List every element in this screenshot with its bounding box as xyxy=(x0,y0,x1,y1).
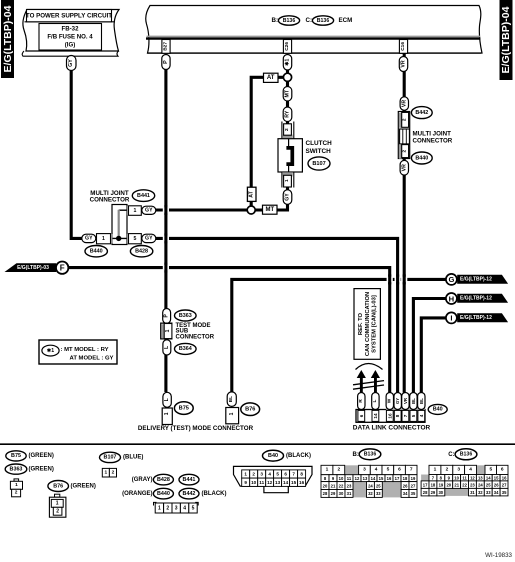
svg-text:31: 31 xyxy=(347,491,352,496)
svg-text:1: 1 xyxy=(158,505,161,511)
svg-text:28: 28 xyxy=(323,491,328,496)
svg-text:VR: VR xyxy=(401,100,407,107)
wire color label P xyxy=(162,55,170,70)
svg-text:VR: VR xyxy=(403,397,408,404)
wire crossing breaks (no connection) xyxy=(163,205,408,284)
svg-text:22: 22 xyxy=(339,483,344,488)
svg-text:CONNECTOR: CONNECTOR xyxy=(413,137,453,144)
svg-text:4: 4 xyxy=(183,505,186,511)
svg-text:: MT MODEL : RY: : MT MODEL : RY xyxy=(61,347,109,353)
svg-text:6: 6 xyxy=(284,472,287,477)
connector oval B440 (right) xyxy=(411,152,432,164)
DLC pin 16 W xyxy=(386,393,393,422)
DLC pin 7 VR xyxy=(402,393,409,422)
test mode sub connector socket xyxy=(161,323,215,341)
legend B107 (BLUE) xyxy=(100,452,144,462)
svg-text:B76: B76 xyxy=(245,407,255,413)
svg-text:MT: MT xyxy=(265,207,274,213)
svg-text:1: 1 xyxy=(56,501,59,507)
svg-text:BL: BL xyxy=(411,398,416,404)
svg-text:8: 8 xyxy=(395,414,400,417)
delivery connector B75 xyxy=(162,392,172,424)
svg-text:B40: B40 xyxy=(433,407,443,413)
legend (ORANGE) B440 B442 (BLACK) xyxy=(122,488,226,499)
svg-text:H: H xyxy=(449,294,454,303)
svg-text:2: 2 xyxy=(112,469,115,475)
svg-text:10: 10 xyxy=(251,480,257,485)
wire color label GY (clutch out) xyxy=(283,190,292,205)
svg-text:GY: GY xyxy=(85,236,93,242)
svg-text:B40: B40 xyxy=(268,453,278,459)
ECM pin C16 xyxy=(399,40,407,54)
svg-text:SWITCH: SWITCH xyxy=(306,148,332,155)
svg-text:11: 11 xyxy=(462,475,467,480)
svg-text:B:: B: xyxy=(272,17,279,24)
off-page arrow E/G(LTBP)-12 (G) xyxy=(457,275,508,284)
svg-text:REF. TO: REF. TO xyxy=(358,312,364,335)
svg-text:18: 18 xyxy=(403,476,408,481)
svg-text:CONNECTOR: CONNECTOR xyxy=(90,196,130,203)
note box *1 MT/AT wire colors xyxy=(39,340,117,364)
svg-text:23: 23 xyxy=(470,482,475,487)
svg-text:BL: BL xyxy=(419,398,424,404)
svg-text:B136: B136 xyxy=(364,452,377,458)
svg-text:1: 1 xyxy=(229,412,235,415)
svg-text:C:: C: xyxy=(306,17,313,24)
ECM pin C26 xyxy=(283,40,291,54)
svg-text:2: 2 xyxy=(337,467,340,473)
DLC pin 8 GY xyxy=(394,393,401,422)
svg-text:7: 7 xyxy=(410,467,413,473)
connector oval B442 xyxy=(411,107,432,119)
svg-text:E/G(LTBP)-04: E/G(LTBP)-04 xyxy=(500,6,512,73)
page tab E/G(LTBP)-04 right xyxy=(500,0,513,80)
svg-text:1: 1 xyxy=(326,467,329,473)
svg-text:1: 1 xyxy=(102,236,105,242)
svg-text:17: 17 xyxy=(423,482,428,487)
svg-text:1: 1 xyxy=(434,467,437,473)
svg-text:10: 10 xyxy=(454,475,459,480)
svg-text:22: 22 xyxy=(462,482,467,487)
node G xyxy=(446,274,457,285)
connector oval B428 xyxy=(130,246,152,257)
svg-text:12: 12 xyxy=(355,476,360,481)
svg-text:2: 2 xyxy=(252,472,255,477)
svg-text:B76: B76 xyxy=(53,483,63,489)
svg-text:AT: AT xyxy=(249,190,255,197)
svg-text:32: 32 xyxy=(368,491,373,496)
test mode sub connector B363/B364 xyxy=(163,309,171,324)
svg-text:B364: B364 xyxy=(179,346,192,352)
wire color label VR (below B440) xyxy=(400,160,408,175)
clutch switch B107 pin 2 xyxy=(282,122,294,139)
svg-text:19: 19 xyxy=(411,476,416,481)
svg-text:FB-32: FB-32 xyxy=(62,26,80,33)
svg-text:DELIVERY (TEST) MODE CONNECTOR: DELIVERY (TEST) MODE CONNECTOR xyxy=(138,425,254,432)
svg-text:(GREEN): (GREEN) xyxy=(29,466,54,472)
svg-text:GY: GY xyxy=(145,236,153,242)
svg-text:(GREEN): (GREEN) xyxy=(29,453,54,459)
svg-text:RY: RY xyxy=(285,110,291,118)
wire row through multi joint connector (left) xyxy=(96,237,156,239)
svg-text:GY: GY xyxy=(395,398,400,404)
svg-text:11: 11 xyxy=(259,480,264,485)
svg-text:(IG): (IG) xyxy=(65,42,76,49)
svg-text:E/G(LTBP)-04: E/G(LTBP)-04 xyxy=(2,5,14,72)
svg-text:25: 25 xyxy=(486,482,491,487)
svg-text:5: 5 xyxy=(276,472,279,477)
svg-text:2: 2 xyxy=(166,505,169,511)
svg-text:VR: VR xyxy=(401,164,407,171)
svg-text:6: 6 xyxy=(398,467,401,473)
svg-text:B75: B75 xyxy=(11,453,21,459)
twisted pair to CAN (pins 6/14) xyxy=(353,364,384,394)
B441 pin 1 (upper) xyxy=(127,206,141,216)
wire color label GY (B441 out) xyxy=(142,206,156,214)
svg-text:13: 13 xyxy=(478,475,483,480)
wire GY from B428 pin5 to data link connector pin 8 xyxy=(156,238,398,392)
svg-text:VR: VR xyxy=(401,60,407,67)
legend B40 (BLACK) xyxy=(263,450,312,461)
svg-text:6: 6 xyxy=(359,414,364,417)
svg-text:4: 4 xyxy=(419,414,424,417)
connector oval B40 xyxy=(428,404,447,414)
svg-text:B442: B442 xyxy=(415,110,428,116)
svg-text:25: 25 xyxy=(376,483,381,488)
connector oval B363 xyxy=(175,310,197,321)
svg-text:B440: B440 xyxy=(415,155,428,161)
svg-text:3: 3 xyxy=(260,472,263,477)
wire *1 from C26 to clutch switch and junction xyxy=(156,70,288,210)
svg-text:B136: B136 xyxy=(460,452,473,458)
connector oval B364 xyxy=(175,343,197,354)
svg-text:B:: B: xyxy=(353,452,359,458)
svg-text:5: 5 xyxy=(192,505,195,511)
wire VR from C16 to data link connector pin 7 xyxy=(403,53,406,393)
ECM pin B27 xyxy=(162,40,170,54)
legend separator xyxy=(0,443,515,445)
svg-text:20: 20 xyxy=(323,483,328,488)
svg-text:1: 1 xyxy=(165,329,171,332)
svg-text:B27: B27 xyxy=(163,42,169,51)
svg-text:17: 17 xyxy=(395,476,400,481)
off-page arrow E/G(LTBP)-12 (H) xyxy=(457,294,508,303)
svg-text:(ORANGE): (ORANGE) xyxy=(122,491,152,497)
wire color label GY (B440 in) xyxy=(82,234,96,242)
svg-text:E/G(LTBP)-12: E/G(LTBP)-12 xyxy=(460,315,492,321)
connector oval B75 xyxy=(174,402,193,415)
svg-text:1: 1 xyxy=(164,412,170,415)
svg-text:7: 7 xyxy=(292,472,295,477)
label AT (horizontal box) xyxy=(264,73,279,82)
svg-text:P: P xyxy=(163,60,169,64)
svg-text:27: 27 xyxy=(502,482,507,487)
svg-text:C:: C: xyxy=(448,452,454,458)
legend connector icon B363 xyxy=(10,479,22,497)
svg-text:26: 26 xyxy=(403,483,408,488)
legend B363 (GREEN) xyxy=(5,464,54,474)
svg-text:12: 12 xyxy=(267,480,273,485)
svg-text:30: 30 xyxy=(339,491,344,496)
svg-text:5: 5 xyxy=(133,236,136,242)
svg-text:6: 6 xyxy=(501,467,504,473)
svg-text:B136: B136 xyxy=(283,18,296,24)
svg-text:20: 20 xyxy=(446,482,451,487)
svg-text:B107: B107 xyxy=(104,455,117,461)
node H xyxy=(446,293,457,304)
svg-text:B107: B107 xyxy=(312,161,325,167)
legend connector icon B76 xyxy=(49,494,66,517)
connector oval B440 (left) xyxy=(85,246,107,257)
data link connector B40 xyxy=(356,394,425,423)
svg-text:E/G(LTBP)-12: E/G(LTBP)-12 xyxy=(460,295,492,301)
svg-text:B363: B363 xyxy=(10,466,23,472)
svg-text:(GREEN): (GREEN) xyxy=(71,483,96,489)
svg-text:16: 16 xyxy=(387,413,392,419)
svg-text:ECM: ECM xyxy=(339,17,353,24)
svg-text:1: 1 xyxy=(244,472,247,477)
delivery connector B76 xyxy=(226,392,239,424)
svg-text:G: G xyxy=(448,275,454,284)
connector oval B76 xyxy=(241,403,260,416)
svg-text:16: 16 xyxy=(299,480,305,485)
svg-text:23: 23 xyxy=(347,483,352,488)
svg-text:2: 2 xyxy=(402,118,408,121)
svg-text:MT: MT xyxy=(285,89,291,97)
svg-text:2: 2 xyxy=(446,467,449,473)
ECM label B:(B136) C:(B136) ECM xyxy=(272,16,353,25)
wire color label RY xyxy=(283,107,292,122)
svg-text:GY: GY xyxy=(145,208,153,214)
svg-text:L: L xyxy=(372,399,378,402)
svg-text:2: 2 xyxy=(56,508,59,514)
svg-text:8: 8 xyxy=(300,472,303,477)
off-page arrow E/G(LTBP)-12 (I) xyxy=(457,313,508,322)
B440 pin 1 (lower left) xyxy=(97,234,113,244)
legend C:(B136) connector pin map xyxy=(448,449,477,460)
legend (GRAY) B428 B441 xyxy=(132,474,199,485)
svg-text:5: 5 xyxy=(411,414,416,417)
svg-text:21: 21 xyxy=(454,482,459,487)
svg-text:4: 4 xyxy=(375,467,378,473)
svg-text:3: 3 xyxy=(175,505,178,511)
svg-text:F: F xyxy=(60,264,65,273)
svg-text:2: 2 xyxy=(402,149,408,152)
svg-text:13: 13 xyxy=(363,476,368,481)
junction AT/MT (option node) xyxy=(247,206,255,214)
svg-text:32: 32 xyxy=(478,490,483,495)
wire color label *1 xyxy=(283,55,291,71)
svg-text:19: 19 xyxy=(439,482,444,487)
DLC pin 5 BL xyxy=(410,393,417,422)
wire color label GY (B428 out) xyxy=(142,234,156,242)
svg-text:9: 9 xyxy=(244,480,247,485)
svg-text:14: 14 xyxy=(371,476,376,481)
svg-text:15: 15 xyxy=(494,475,499,480)
svg-text:(BLACK): (BLACK) xyxy=(286,453,311,459)
wire P from B27 to delivery connector B75 xyxy=(164,70,167,393)
svg-text:33: 33 xyxy=(376,491,381,496)
svg-text:18: 18 xyxy=(431,482,436,487)
svg-text:P: P xyxy=(164,314,170,318)
svg-text:16: 16 xyxy=(502,475,507,480)
wire color label MT xyxy=(283,87,292,102)
svg-text:SYSTEM [CAN(L)-03]: SYSTEM [CAN(L)-03] xyxy=(372,295,378,353)
svg-text:16: 16 xyxy=(387,476,392,481)
svg-text:E/G(LTBP)-03: E/G(LTBP)-03 xyxy=(17,265,49,271)
svg-text:B428: B428 xyxy=(157,477,170,483)
legend connector icon B107 xyxy=(102,468,116,477)
svg-text:B442: B442 xyxy=(183,491,196,497)
svg-text:27: 27 xyxy=(411,483,416,488)
svg-text:14: 14 xyxy=(373,413,378,419)
svg-text:33: 33 xyxy=(486,490,491,495)
B136 (B) pins xyxy=(321,465,417,497)
svg-text:14: 14 xyxy=(283,480,289,485)
DLC pin 6 R xyxy=(358,393,365,422)
svg-text:10: 10 xyxy=(339,476,344,481)
svg-text:35: 35 xyxy=(502,490,507,495)
svg-text:13: 13 xyxy=(275,480,281,485)
node I xyxy=(446,312,457,323)
svg-text:✱1: ✱1 xyxy=(285,59,291,66)
legend B76 (GREEN) xyxy=(48,481,96,492)
svg-text:1: 1 xyxy=(15,482,18,488)
svg-text:(BLACK): (BLACK) xyxy=(202,491,227,497)
svg-text:R: R xyxy=(358,399,364,403)
power supply ribbon FB-32 fuse box xyxy=(22,10,119,57)
svg-text:5: 5 xyxy=(489,467,492,473)
svg-text:✱1: ✱1 xyxy=(47,348,54,354)
svg-text:AT: AT xyxy=(267,75,275,81)
svg-text:2: 2 xyxy=(15,490,18,496)
svg-text:CONNECTOR: CONNECTOR xyxy=(176,335,215,341)
svg-text:30: 30 xyxy=(438,490,443,495)
svg-text:29: 29 xyxy=(331,491,336,496)
multi joint connector B442/B440 (right) xyxy=(398,112,452,159)
svg-text:29: 29 xyxy=(431,490,436,495)
svg-text:4: 4 xyxy=(268,472,271,477)
wire GY from fuse FB-32 to B440 xyxy=(71,71,82,239)
note box REF. TO CAN COMMUNICATION SYSTEM xyxy=(354,289,380,360)
B40 pins 1-16 xyxy=(242,470,306,487)
svg-text:26: 26 xyxy=(494,482,499,487)
svg-text:B440: B440 xyxy=(90,249,103,255)
svg-text:12: 12 xyxy=(470,475,475,480)
option node (AT/MT split) xyxy=(283,73,291,81)
svg-text:15: 15 xyxy=(379,476,384,481)
svg-text:TO POWER SUPPLY CIRCUIT: TO POWER SUPPLY CIRCUIT xyxy=(26,13,112,20)
svg-text:E/G(LTBP)-12: E/G(LTBP)-12 xyxy=(460,276,492,282)
svg-text:CAN COMMUNICATION: CAN COMMUNICATION xyxy=(365,292,371,356)
svg-text:3: 3 xyxy=(457,467,460,473)
svg-text:1: 1 xyxy=(284,179,290,182)
svg-text:3: 3 xyxy=(363,467,366,473)
legend B75 (GREEN) xyxy=(6,451,54,461)
svg-text:11: 11 xyxy=(347,476,352,481)
svg-text:CLUTCH: CLUTCH xyxy=(306,140,333,147)
wire color label VR (above B442) xyxy=(400,97,408,111)
legend B40 connector pin map xyxy=(234,466,313,492)
svg-text:C16: C16 xyxy=(400,42,406,51)
svg-text:BL: BL xyxy=(228,396,234,402)
wire color label VR (top) xyxy=(399,57,407,72)
clutch switch U=B107 xyxy=(278,139,332,172)
svg-text:21: 21 xyxy=(331,483,336,488)
node F xyxy=(56,262,68,274)
svg-text:34: 34 xyxy=(403,491,408,496)
svg-text:31: 31 xyxy=(470,490,475,495)
svg-text:(BLUE): (BLUE) xyxy=(123,455,143,461)
svg-text:35: 35 xyxy=(411,491,416,496)
svg-text:(GRAY): (GRAY) xyxy=(132,477,153,483)
svg-text:WI-19833: WI-19833 xyxy=(485,552,512,559)
svg-text:34: 34 xyxy=(494,490,499,495)
svg-text:B441: B441 xyxy=(137,193,150,199)
svg-text:AT MODEL : GY: AT MODEL : GY xyxy=(70,356,114,362)
svg-text:B363: B363 xyxy=(179,313,192,319)
page tab E/G(LTBP)-04 left xyxy=(1,0,14,78)
svg-text:7: 7 xyxy=(403,414,408,417)
svg-text:15: 15 xyxy=(291,480,297,485)
svg-text:B440: B440 xyxy=(157,491,170,497)
svg-text:W: W xyxy=(386,398,392,403)
legend connector icon 1-5 multi joint xyxy=(154,502,199,513)
label AT (vertical capsule) xyxy=(247,187,256,201)
ECM band B136 xyxy=(146,6,482,54)
svg-text:1: 1 xyxy=(133,208,136,214)
svg-text:B75: B75 xyxy=(179,405,189,411)
wire BL from B76 to connector G xyxy=(232,279,446,392)
multi joint connector body (left) B441/B440/B428 xyxy=(90,190,155,245)
svg-text:14: 14 xyxy=(486,475,491,480)
svg-text:GY: GY xyxy=(68,59,74,67)
svg-text:4: 4 xyxy=(469,467,472,473)
wire W from connector F to data link connector pin 16 xyxy=(68,268,389,393)
B136 (C) pins xyxy=(421,465,508,496)
wire BL from data link pin 5 to connector H xyxy=(413,299,446,393)
svg-text:C26: C26 xyxy=(284,42,290,51)
wire color label GY (fuse output) xyxy=(67,56,77,71)
svg-text:B441: B441 xyxy=(183,477,196,483)
svg-text:5: 5 xyxy=(387,467,390,473)
legend B:(B136) connector pin map xyxy=(353,449,381,460)
svg-text:F/B FUSE NO. 4: F/B FUSE NO. 4 xyxy=(47,34,93,41)
DLC pin 14 L xyxy=(372,393,379,422)
off-page arrow E/G(LTBP)-03 xyxy=(5,263,57,272)
wire AT branch xyxy=(251,77,287,210)
svg-text:24: 24 xyxy=(368,483,373,488)
svg-text:24: 24 xyxy=(478,482,483,487)
clutch switch B107 pin 1 xyxy=(282,172,294,188)
svg-text:B136: B136 xyxy=(317,18,330,24)
wire color label L (below sub connector) xyxy=(163,340,171,355)
wire BL from data link pin 4 to connector I xyxy=(421,318,446,393)
svg-text:GY: GY xyxy=(285,193,291,201)
label MT (horizontal box) xyxy=(263,205,278,214)
svg-text:DATA LINK CONNECTOR: DATA LINK CONNECTOR xyxy=(353,425,431,432)
DLC pin 4 BL xyxy=(418,393,425,422)
svg-text:I: I xyxy=(450,314,452,323)
B428 pin 5 (lower right) xyxy=(127,234,141,244)
svg-text:1: 1 xyxy=(104,469,107,475)
svg-text:28: 28 xyxy=(423,490,428,495)
svg-text:B428: B428 xyxy=(135,249,148,255)
svg-text:2: 2 xyxy=(284,128,290,131)
